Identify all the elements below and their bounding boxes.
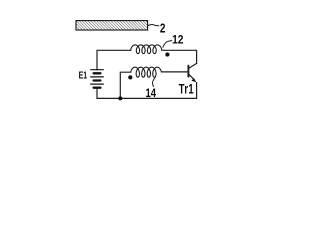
magnet bar 2 bbox=[76, 21, 148, 30]
svg-text:14: 14 bbox=[146, 87, 157, 100]
svg-text:E1: E1 bbox=[79, 69, 88, 81]
wire base rail bbox=[161, 71, 188, 73]
leader to label 2 bbox=[148, 25, 159, 26]
polarity dot coil 14 bbox=[128, 75, 132, 79]
Tr1 emitter arrowhead bbox=[192, 78, 197, 82]
svg-text:Tr1: Tr1 bbox=[179, 81, 194, 97]
Tr1 emitter bbox=[189, 74, 194, 80]
junction dot node bbox=[118, 96, 122, 100]
wire top rail right bbox=[162, 50, 197, 63]
transistor Tr1 body bbox=[187, 66, 189, 77]
leader to label 12 bbox=[163, 40, 172, 47]
polarity dot coil 12 bbox=[165, 52, 169, 56]
leader to label 14 bbox=[152, 77, 155, 86]
Tr1 collector bbox=[189, 63, 197, 68]
wire mid-left branch bbox=[120, 72, 131, 98]
battery E1 bbox=[91, 70, 104, 88]
svg-text:2: 2 bbox=[160, 22, 166, 35]
inductor 12 bbox=[131, 45, 162, 54]
wire top rail left bbox=[97, 50, 131, 70]
svg-text:12: 12 bbox=[172, 34, 183, 47]
wire battery bottom to rail bbox=[97, 83, 197, 99]
inductor 14 bbox=[131, 67, 162, 77]
